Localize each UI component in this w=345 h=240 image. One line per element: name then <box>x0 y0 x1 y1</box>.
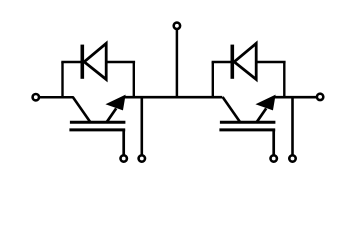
terminal G2 (gate, bottom right) <box>271 155 277 161</box>
wire: Q2 gate bar to gate terminal <box>272 129 275 155</box>
terminal E1 (auxiliary emitter, bottom left) <box>139 155 145 161</box>
IGBT Q1 gate bar <box>69 128 125 131</box>
terminal 1 (collector C1, left) <box>33 94 39 100</box>
diode D2 cathode bar <box>231 45 235 79</box>
terminal G1 (gate, bottom left) <box>121 155 127 161</box>
diode D2 anode triangle <box>234 43 256 79</box>
wire: Q1 gate bar to gate terminal <box>122 129 125 155</box>
wire: Q2 emitter to output terminal <box>275 96 317 99</box>
IGBT Q1 emitter arrow shaft <box>106 108 116 122</box>
wire: diode D1 anode leg <box>133 62 135 98</box>
wire: diode D1 top wire <box>61 61 135 64</box>
wire: diode D1 cathode leg <box>61 62 63 98</box>
wire: midpoint terminal riser <box>176 29 179 98</box>
diode D1 anode triangle <box>84 43 106 79</box>
IGBT Q1 emitter arrowhead <box>107 96 124 110</box>
IGBT Q2 body bar <box>220 121 276 124</box>
IGBT Q2 emitter arrowhead <box>257 96 274 110</box>
wire: midpoint bus E1/C2 <box>124 96 223 99</box>
IGBT Q1 collector slant <box>73 97 91 122</box>
wire: diode D2 cathode leg <box>212 62 214 98</box>
IGBT Q2 collector slant <box>223 97 241 122</box>
terminal E2aux (auxiliary emitter, bottom right) <box>289 155 295 161</box>
wire: diode D2 top wire <box>212 61 286 64</box>
diode D1 cathode bar <box>81 45 85 79</box>
wire: C1 terminal to Q1 collector bend <box>39 96 73 99</box>
IGBT Q2 emitter arrow shaft <box>256 108 266 122</box>
wire: diode D2 anode leg <box>283 62 285 98</box>
terminal 3 (emitter E2, right) <box>317 94 323 100</box>
wire: emitter bus to auxiliary emitter terminal E2 <box>291 97 294 155</box>
terminal 2 (midpoint E1/C2, top) <box>174 23 180 29</box>
wire: midpoint bus to auxiliary emitter terminal E1 <box>141 97 144 155</box>
IGBT Q1 body bar <box>70 121 126 124</box>
IGBT Q2 gate bar <box>219 128 275 131</box>
